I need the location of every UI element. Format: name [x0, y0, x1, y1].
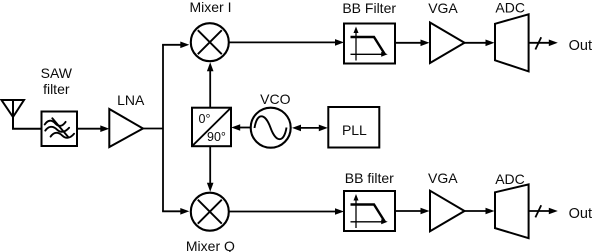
wire LNA output to riser: [143, 128, 163, 130]
wire VGA to ADC (bottom): [465, 210, 487, 212]
wire riser to mixer Q: [162, 210, 181, 212]
wire mixer I to BB Filter: [229, 41, 336, 43]
wire VCO to PLL (double arrow): [300, 127, 320, 129]
svg-text:BB Filter: BB Filter: [342, 0, 396, 16]
svg-text:Out: Out: [569, 206, 592, 222]
amplifier VGA (bottom): [430, 191, 465, 232]
svg-text:PLL: PLL: [342, 122, 367, 138]
svg-text:ADC: ADC: [495, 0, 525, 15]
phase splitter 0/90 box: [192, 108, 231, 147]
svg-text:VGA: VGA: [428, 170, 458, 186]
svg-text:Mixer I: Mixer I: [190, 0, 232, 15]
ADC block (bottom): [495, 184, 529, 238]
oscillator VCO: [251, 108, 291, 148]
wire VCO to splitter: [240, 127, 252, 129]
SAW filter box: [42, 112, 78, 147]
wire riser vertical: [162, 45, 164, 212]
svg-text:filter: filter: [43, 81, 70, 97]
svg-text:SAW: SAW: [41, 65, 73, 81]
svg-text:LNA: LNA: [117, 92, 145, 108]
svg-text:ADC: ADC: [495, 171, 525, 187]
wire SAW filter to LNA: [77, 128, 101, 130]
wire riser to mixer I: [162, 44, 181, 46]
BB filter response icon (bottom): [351, 194, 388, 228]
SAW filter wave symbol: [45, 118, 74, 137]
svg-text:Out: Out: [569, 38, 592, 54]
wire BB filter to VGA (bottom): [395, 210, 421, 212]
BB Filter box (top): [344, 24, 395, 64]
wire mixer Q to BB filter: [229, 211, 336, 213]
BB Filter response icon (top): [351, 27, 388, 61]
svg-text:0°: 0°: [199, 112, 211, 126]
svg-text:VGA: VGA: [428, 0, 458, 16]
mixer I: [191, 23, 229, 61]
BB filter box (bottom): [344, 191, 395, 231]
amplifier VGA (top): [430, 23, 465, 64]
svg-text:90°: 90°: [207, 130, 226, 144]
wire VGA to ADC (top): [465, 42, 487, 44]
mixer Q: [191, 193, 229, 231]
wire ADC to Out (bottom) with bus slash: [529, 210, 550, 212]
wire splitter to mixer I (LO): [209, 71, 211, 108]
ADC block (top): [495, 14, 529, 71]
svg-text:Mixer Q: Mixer Q: [186, 238, 235, 252]
svg-text:BB filter: BB filter: [345, 170, 394, 186]
wire splitter to mixer Q (LO): [209, 146, 211, 183]
PLL box: [328, 107, 379, 148]
wire BB Filter to VGA (top): [395, 42, 421, 44]
antenna: [2, 100, 42, 129]
svg-text:VCO: VCO: [260, 91, 290, 107]
wire ADC to Out (top) with bus slash: [529, 42, 550, 44]
amplifier LNA: [109, 109, 143, 147]
